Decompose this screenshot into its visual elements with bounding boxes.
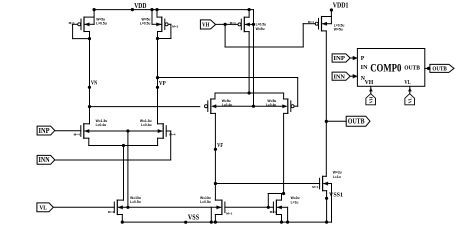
svg-text:W=5u: W=5u [334, 28, 343, 32]
svg-text:VP: VP [159, 80, 166, 87]
svg-text:W=5u: W=5u [256, 27, 265, 31]
svg-text:M=1: M=1 [312, 185, 318, 189]
svg-text:L=0.4u: L=0.4u [96, 123, 107, 127]
svg-text:VH: VH [202, 22, 210, 29]
svg-text:L=0.4u: L=0.4u [222, 103, 233, 107]
svg-text:M=1: M=1 [270, 210, 276, 214]
svg-text:VH: VH [368, 96, 373, 103]
svg-text:M=1: M=1 [69, 21, 75, 25]
svg-text:M=1: M=1 [308, 20, 314, 24]
svg-text:L=0.4u: L=0.4u [266, 103, 277, 107]
svg-text:P: P [361, 56, 365, 62]
svg-text:INN: INN [333, 73, 345, 80]
svg-text:VL: VL [404, 79, 411, 86]
svg-text:OUTB: OUTB [432, 65, 447, 72]
svg-text:VL: VL [407, 97, 412, 103]
svg-text:VN: VN [91, 80, 97, 87]
svg-text:OUTB: OUTB [348, 118, 365, 126]
svg-text:L=0.5u: L=0.5u [130, 200, 141, 204]
svg-text:IN: IN [361, 65, 369, 71]
svg-text:VSS: VSS [188, 215, 199, 222]
svg-text:COMP0: COMP0 [370, 62, 401, 74]
svg-text:VSS1: VSS1 [329, 191, 343, 198]
svg-text:L=1u: L=1u [291, 201, 299, 205]
svg-text:M=4: M=4 [108, 210, 114, 214]
svg-text:VDD: VDD [134, 2, 146, 10]
svg-text:VDD1: VDD1 [333, 2, 349, 10]
svg-text:VF: VF [217, 142, 223, 149]
svg-text:L=0.5u: L=0.5u [140, 22, 151, 26]
svg-text:M=1: M=1 [172, 24, 178, 28]
svg-text:L=0.5u: L=0.5u [200, 200, 211, 204]
svg-text:M=1: M=1 [230, 21, 236, 25]
svg-text:VH: VH [365, 79, 374, 86]
svg-text:L=0.5u: L=0.5u [96, 22, 107, 26]
svg-text:VL: VL [39, 204, 47, 211]
svg-text:INP: INP [333, 55, 345, 62]
svg-text:OUTB: OUTB [404, 65, 420, 71]
svg-text:M=4: M=4 [169, 133, 175, 137]
svg-text:L=1u: L=1u [333, 175, 341, 179]
svg-text:L=0.4u: L=0.4u [141, 123, 152, 127]
svg-text:M=1: M=1 [226, 211, 232, 215]
svg-text:INN: INN [39, 156, 50, 164]
svg-text:M=4: M=4 [74, 133, 80, 137]
svg-text:INP: INP [39, 127, 51, 135]
